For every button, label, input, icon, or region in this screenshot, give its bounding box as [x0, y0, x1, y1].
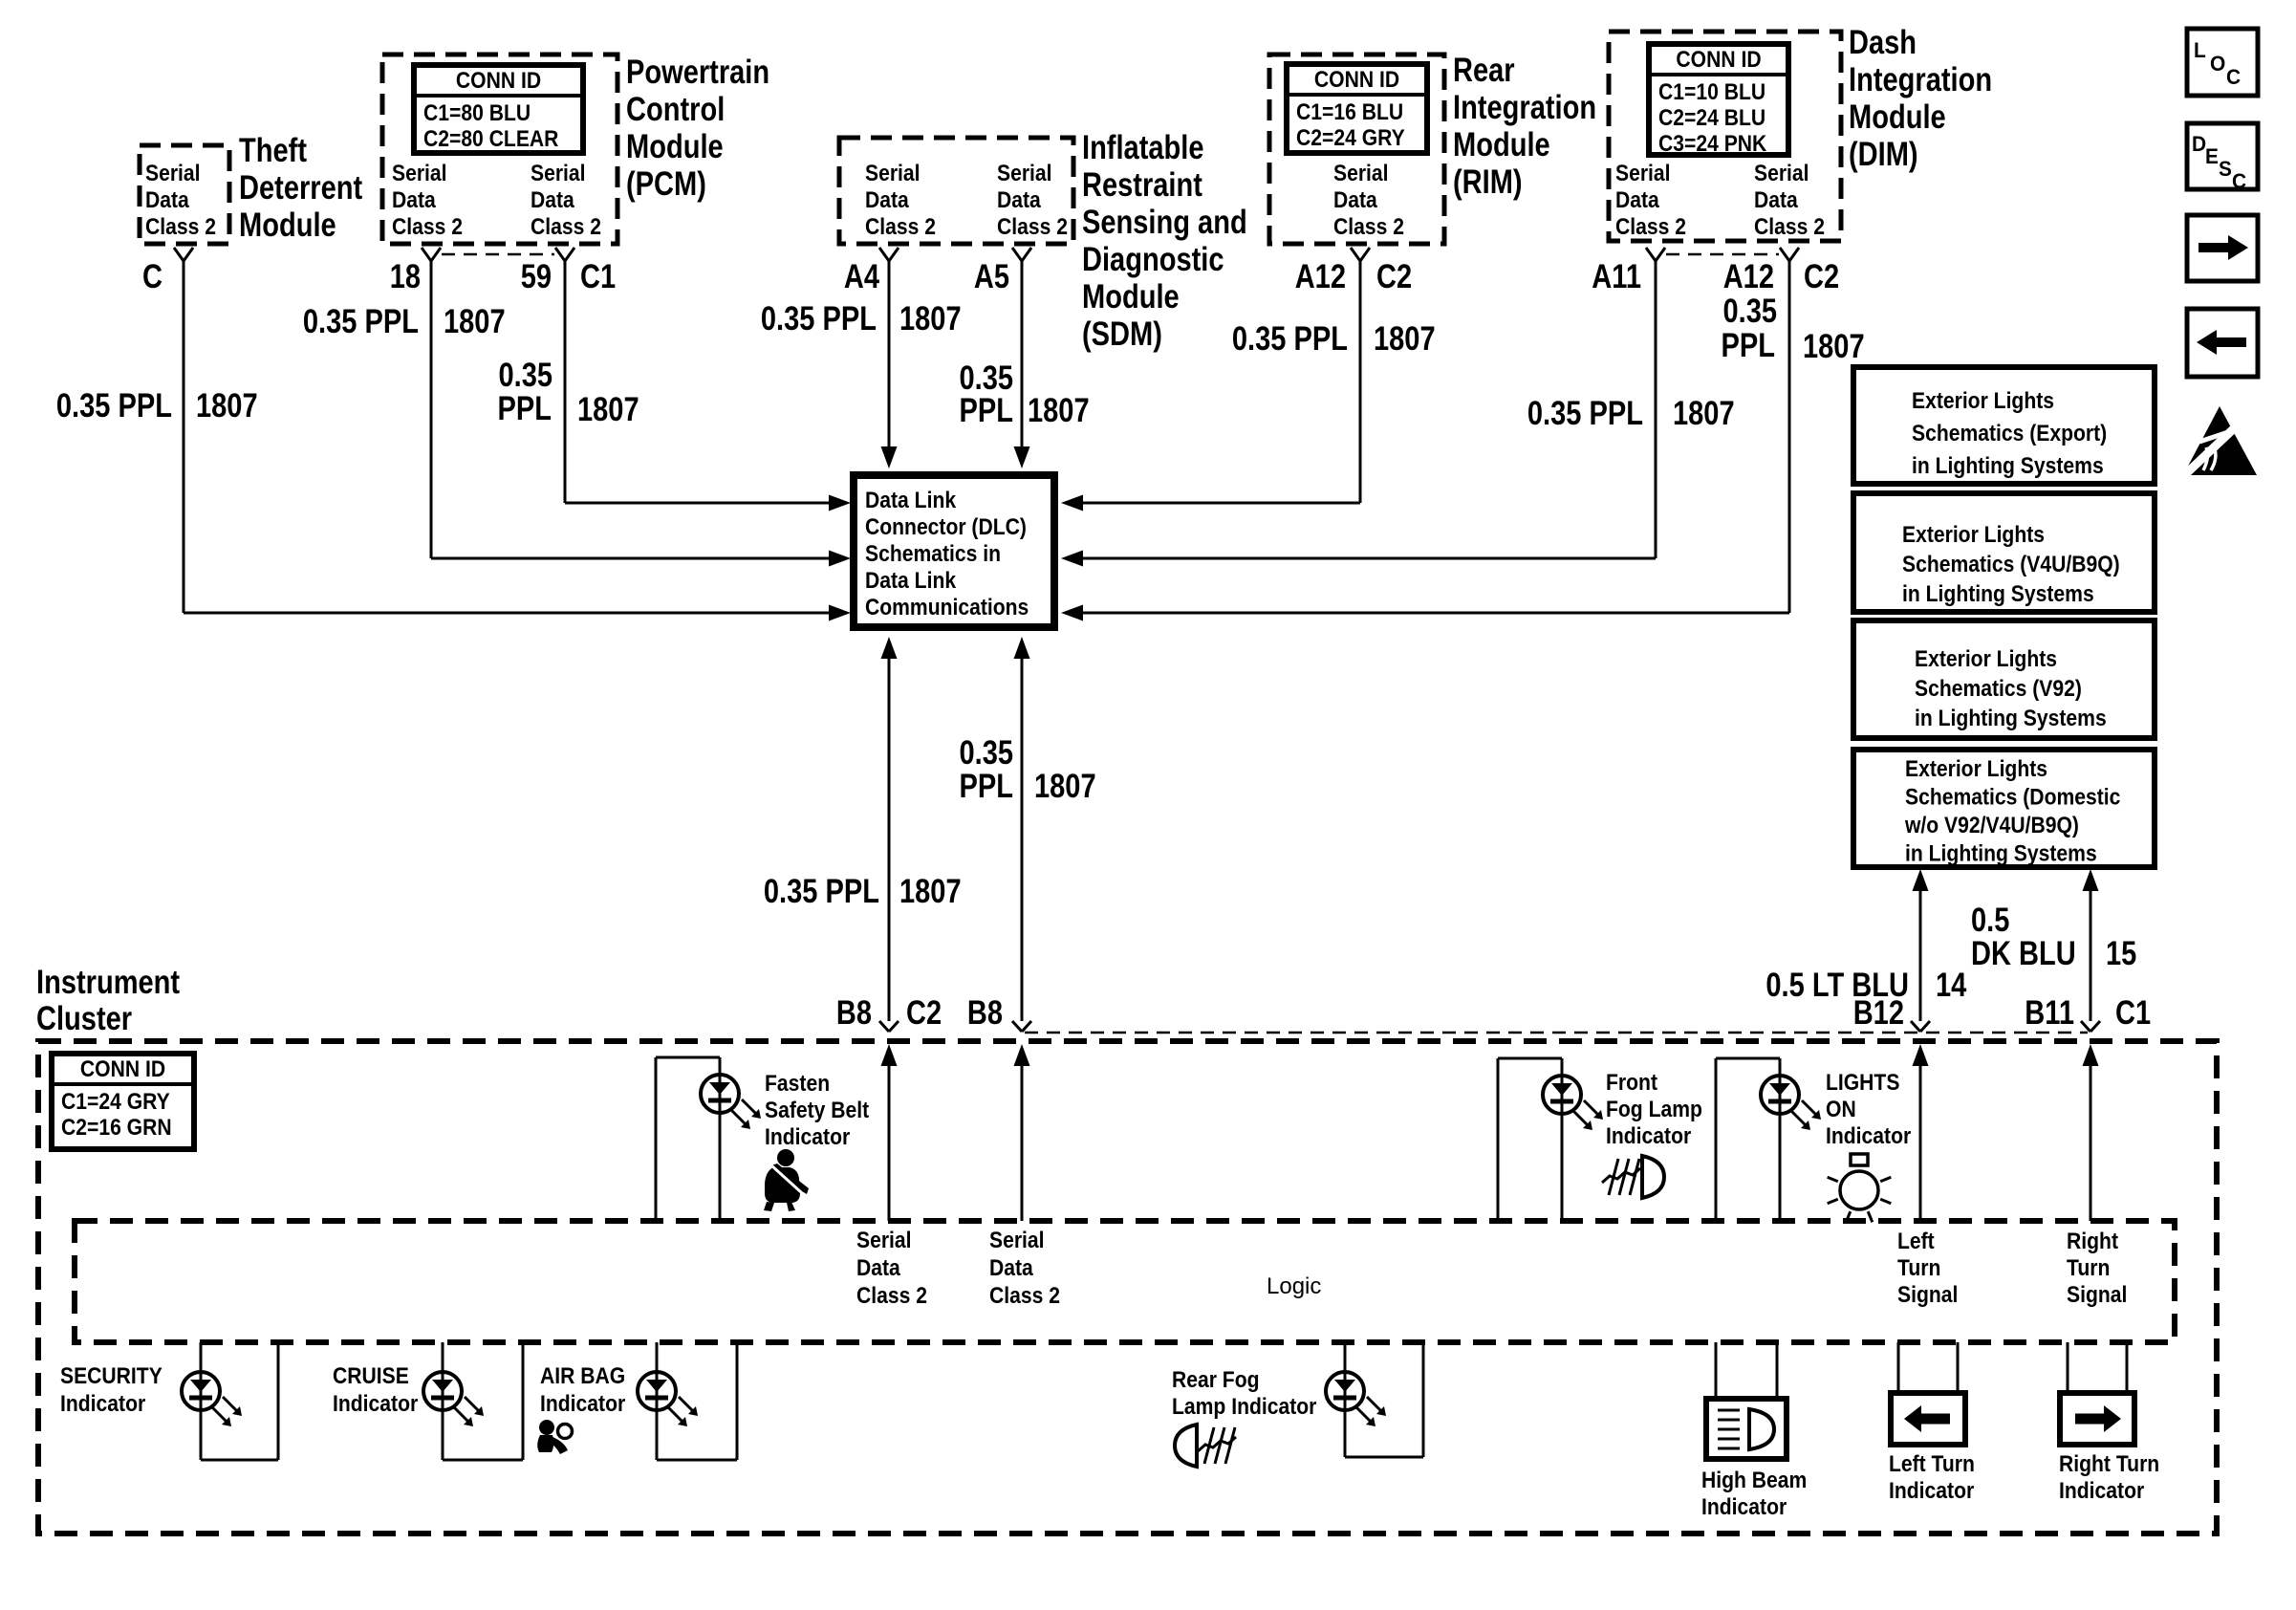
svg-text:D: D — [2192, 132, 2206, 156]
svg-text:Exterior Lights: Exterior Lights — [1912, 388, 2054, 414]
svg-text:0.35: 0.35 — [960, 734, 1014, 772]
svg-text:Module: Module — [1849, 98, 1946, 136]
svg-text:(DIM): (DIM) — [1849, 136, 1918, 173]
svg-text:Right Turn: Right Turn — [2059, 1451, 2159, 1477]
svg-text:PPL: PPL — [960, 392, 1014, 429]
svg-text:Dash: Dash — [1849, 24, 1917, 61]
svg-text:Indicator: Indicator — [2059, 1478, 2144, 1504]
svg-text:Communications: Communications — [865, 595, 1029, 620]
svg-text:S: S — [2219, 157, 2232, 181]
svg-text:Class 2: Class 2 — [145, 214, 216, 240]
svg-text:in Lighting Systems: in Lighting Systems — [1902, 581, 2094, 607]
svg-text:Left: Left — [1897, 1229, 1935, 1254]
svg-text:C2=24 GRY: C2=24 GRY — [1296, 125, 1405, 151]
svg-text:Indicator: Indicator — [1701, 1494, 1787, 1520]
svg-text:Deterrent: Deterrent — [239, 169, 362, 207]
svg-text:C2=24 BLU: C2=24 BLU — [1658, 105, 1765, 131]
svg-text:Indicator: Indicator — [1826, 1123, 1911, 1149]
svg-text:O: O — [2210, 52, 2225, 76]
svg-text:1807: 1807 — [899, 873, 962, 910]
svg-text:A4: A4 — [844, 258, 880, 295]
svg-text:1807: 1807 — [1803, 328, 1865, 365]
svg-text:C1=24 GRY: C1=24 GRY — [61, 1089, 170, 1115]
svg-text:Serial: Serial — [531, 161, 586, 186]
svg-text:Exterior Lights: Exterior Lights — [1902, 522, 2045, 548]
svg-text:Class 2: Class 2 — [856, 1283, 927, 1309]
svg-text:Indicator: Indicator — [540, 1391, 625, 1417]
svg-text:Schematics (Domestic: Schematics (Domestic — [1905, 785, 2120, 811]
svg-text:(PCM): (PCM) — [626, 165, 706, 203]
svg-text:Class 2: Class 2 — [531, 214, 601, 240]
svg-text:C: C — [2232, 169, 2246, 193]
svg-text:0.35 PPL: 0.35 PPL — [761, 300, 877, 337]
svg-text:B11: B11 — [2025, 994, 2074, 1032]
svg-text:Serial: Serial — [1333, 161, 1389, 186]
svg-text:18: 18 — [390, 258, 421, 295]
svg-text:E: E — [2205, 144, 2219, 168]
svg-text:Serial: Serial — [865, 161, 921, 186]
svg-text:C1=10 BLU: C1=10 BLU — [1658, 79, 1765, 105]
svg-text:0.35 PPL: 0.35 PPL — [764, 873, 879, 910]
svg-text:0.35 PPL: 0.35 PPL — [56, 387, 172, 424]
svg-text:Serial: Serial — [997, 161, 1052, 186]
svg-text:Right: Right — [2067, 1229, 2118, 1254]
svg-text:Data: Data — [989, 1255, 1033, 1281]
svg-text:Safety Belt: Safety Belt — [765, 1098, 869, 1123]
svg-text:0.35 PPL: 0.35 PPL — [303, 303, 419, 340]
svg-text:PPL: PPL — [960, 768, 1014, 805]
svg-text:CONN ID: CONN ID — [80, 1056, 165, 1082]
svg-text:Exterior Lights: Exterior Lights — [1905, 756, 2047, 782]
svg-text:0.35 PPL: 0.35 PPL — [1527, 395, 1643, 432]
svg-text:15: 15 — [2106, 935, 2136, 972]
svg-text:Class 2: Class 2 — [1754, 214, 1825, 240]
svg-text:Indicator: Indicator — [1889, 1478, 1974, 1504]
svg-text:B8: B8 — [836, 994, 872, 1032]
svg-text:Signal: Signal — [2067, 1282, 2127, 1308]
svg-text:B12: B12 — [1853, 994, 1904, 1032]
svg-text:Class 2: Class 2 — [1333, 214, 1404, 240]
svg-text:A12: A12 — [1723, 258, 1774, 295]
svg-text:CRUISE: CRUISE — [333, 1363, 409, 1389]
svg-text:1807: 1807 — [899, 300, 962, 337]
svg-text:14: 14 — [1936, 967, 1967, 1004]
svg-text:Indicator: Indicator — [60, 1391, 145, 1417]
svg-text:Schematics in: Schematics in — [865, 541, 1001, 567]
svg-text:Data: Data — [997, 187, 1041, 213]
svg-text:C1=80 BLU: C1=80 BLU — [423, 100, 531, 126]
svg-text:Data: Data — [865, 187, 909, 213]
svg-text:in Lighting Systems: in Lighting Systems — [1912, 453, 2104, 479]
svg-text:1807: 1807 — [196, 387, 258, 424]
svg-text:C2=80 CLEAR: C2=80 CLEAR — [423, 126, 558, 152]
svg-text:Data: Data — [145, 187, 189, 213]
svg-text:C2=16 GRN: C2=16 GRN — [61, 1115, 172, 1141]
svg-text:0.35 PPL: 0.35 PPL — [1232, 320, 1348, 358]
svg-text:Fog Lamp: Fog Lamp — [1606, 1097, 1702, 1122]
svg-text:Inflatable: Inflatable — [1082, 129, 1204, 166]
svg-text:PPL: PPL — [498, 390, 552, 427]
svg-text:1807: 1807 — [1034, 768, 1096, 805]
svg-text:Diagnostic: Diagnostic — [1082, 241, 1224, 278]
svg-text:Turn: Turn — [2067, 1255, 2110, 1281]
svg-text:A5: A5 — [974, 258, 1009, 295]
svg-text:B8: B8 — [967, 994, 1003, 1032]
svg-text:Data: Data — [1754, 187, 1798, 213]
svg-text:High Beam: High Beam — [1701, 1468, 1807, 1493]
svg-text:0.5: 0.5 — [1971, 902, 2009, 939]
svg-text:Class 2: Class 2 — [865, 214, 936, 240]
svg-text:C1=16 BLU: C1=16 BLU — [1296, 99, 1403, 125]
svg-text:Data: Data — [856, 1255, 900, 1281]
svg-text:DK BLU: DK BLU — [1971, 935, 2076, 972]
svg-text:Exterior Lights: Exterior Lights — [1915, 646, 2057, 672]
svg-text:Indicator: Indicator — [1606, 1123, 1691, 1149]
svg-text:Serial: Serial — [989, 1228, 1045, 1253]
svg-text:0.35: 0.35 — [499, 357, 553, 394]
svg-text:Serial: Serial — [145, 161, 201, 186]
svg-text:Theft: Theft — [239, 132, 307, 169]
svg-text:59: 59 — [521, 258, 552, 295]
svg-text:(RIM): (RIM) — [1453, 163, 1523, 201]
svg-text:Rear Fog: Rear Fog — [1172, 1367, 1260, 1393]
svg-text:A12: A12 — [1295, 258, 1346, 295]
svg-text:Rear: Rear — [1453, 52, 1515, 89]
svg-text:C: C — [2226, 65, 2241, 89]
svg-text:Fasten: Fasten — [765, 1071, 830, 1097]
svg-text:Lamp Indicator: Lamp Indicator — [1172, 1394, 1316, 1420]
svg-text:AIR BAG: AIR BAG — [540, 1363, 625, 1389]
svg-text:Powertrain: Powertrain — [626, 54, 769, 91]
svg-text:1807: 1807 — [444, 303, 506, 340]
svg-text:1807: 1807 — [1028, 392, 1090, 429]
svg-text:Data: Data — [531, 187, 574, 213]
svg-text:LIGHTS: LIGHTS — [1826, 1070, 1899, 1096]
svg-text:Indicator: Indicator — [333, 1391, 418, 1417]
svg-text:in Lighting Systems: in Lighting Systems — [1905, 841, 2097, 867]
svg-text:C2: C2 — [1376, 258, 1412, 295]
svg-text:Schematics (Export): Schematics (Export) — [1912, 421, 2107, 446]
svg-text:Indicator: Indicator — [765, 1124, 850, 1150]
svg-text:0.35: 0.35 — [1723, 293, 1778, 330]
svg-text:Schematics (V92): Schematics (V92) — [1915, 676, 2082, 702]
svg-text:CONN ID: CONN ID — [1314, 67, 1399, 93]
svg-text:A11: A11 — [1592, 258, 1641, 295]
svg-text:w/o V92/V4U/B9Q): w/o V92/V4U/B9Q) — [1904, 813, 2079, 838]
svg-text:PPL: PPL — [1722, 327, 1776, 364]
svg-text:1807: 1807 — [577, 391, 639, 428]
svg-text:Serial: Serial — [1754, 161, 1809, 186]
svg-text:Left Turn: Left Turn — [1889, 1451, 1975, 1477]
svg-text:Sensing and: Sensing and — [1082, 204, 1247, 241]
svg-text:Front: Front — [1606, 1070, 1657, 1096]
svg-text:Module: Module — [239, 207, 336, 244]
svg-text:Module: Module — [1082, 278, 1180, 315]
svg-text:Logic: Logic — [1267, 1273, 1321, 1299]
svg-text:(SDM): (SDM) — [1082, 315, 1162, 353]
svg-text:1807: 1807 — [1374, 320, 1436, 358]
svg-text:Integration: Integration — [1453, 89, 1596, 126]
svg-text:Turn: Turn — [1897, 1255, 1940, 1281]
svg-text:Data: Data — [1615, 187, 1659, 213]
svg-text:L: L — [2194, 38, 2206, 62]
svg-text:CONN ID: CONN ID — [456, 68, 541, 94]
svg-text:Module: Module — [1453, 126, 1550, 163]
svg-text:Control: Control — [626, 91, 725, 128]
svg-text:C2: C2 — [1804, 258, 1839, 295]
svg-text:Data: Data — [1333, 187, 1377, 213]
svg-text:1807: 1807 — [1673, 395, 1735, 432]
svg-text:Signal: Signal — [1897, 1282, 1958, 1308]
svg-text:C: C — [142, 258, 162, 295]
svg-text:CONN ID: CONN ID — [1676, 47, 1761, 73]
svg-text:Class 2: Class 2 — [1615, 214, 1686, 240]
svg-text:Data Link: Data Link — [865, 488, 957, 513]
svg-text:Module: Module — [626, 128, 724, 165]
svg-text:Data: Data — [392, 187, 436, 213]
svg-text:C3=24 PNK: C3=24 PNK — [1658, 131, 1767, 157]
svg-text:Cluster: Cluster — [36, 1000, 132, 1037]
svg-text:Serial: Serial — [392, 161, 447, 186]
svg-text:Serial: Serial — [1615, 161, 1671, 186]
svg-text:Instrument: Instrument — [36, 964, 180, 1001]
svg-text:Integration: Integration — [1849, 61, 1992, 98]
svg-text:Schematics (V4U/B9Q): Schematics (V4U/B9Q) — [1902, 552, 2120, 577]
svg-text:C1: C1 — [580, 258, 616, 295]
svg-text:Class 2: Class 2 — [997, 214, 1068, 240]
svg-text:Class 2: Class 2 — [989, 1283, 1060, 1309]
svg-text:Class 2: Class 2 — [392, 214, 463, 240]
svg-text:C1: C1 — [2115, 994, 2151, 1032]
svg-text:Serial: Serial — [856, 1228, 912, 1253]
svg-text:Restraint: Restraint — [1082, 166, 1202, 204]
svg-text:C2: C2 — [906, 994, 942, 1032]
svg-text:Data Link: Data Link — [865, 568, 957, 594]
svg-text:ON: ON — [1826, 1097, 1856, 1122]
svg-text:in Lighting Systems: in Lighting Systems — [1915, 706, 2107, 731]
svg-text:SECURITY: SECURITY — [60, 1363, 162, 1389]
svg-text:Connector (DLC): Connector (DLC) — [865, 514, 1027, 540]
